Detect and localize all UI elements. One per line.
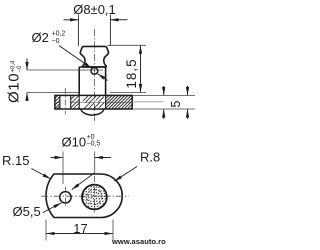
stem left edge	[78, 67, 80, 95]
bottom view horizontal centerline	[41, 195, 129, 197]
stem right edge	[105, 67, 107, 95]
svg-text:Ø5,5: Ø5,5	[13, 204, 41, 219]
dimension 5 arrows left pair	[163, 86, 165, 95]
svg-text:−0: −0	[17, 65, 23, 73]
hatch flange right cell	[106, 96, 132, 109]
dimension line Ø10 vertical	[26, 59, 28, 71]
stem edges through flange	[78, 95, 80, 109]
svg-text:www.asauto.ro: www.asauto.ro	[111, 237, 166, 246]
dimension line Ø8 left arrow	[64, 19, 79, 21]
big circle inner dashed detail	[87, 189, 102, 204]
small circle vertical centerline	[64, 187, 66, 208]
dimension line Ø8 right arrow	[111, 19, 128, 21]
svg-text:R.8: R.8	[140, 150, 160, 165]
extension line flange top (for 5 dim)	[132, 94, 195, 96]
hatch flange cell B (hole to stem)	[71, 96, 79, 109]
svg-text:Ø2: Ø2	[32, 30, 49, 45]
extension line Ø8 right	[109, 15, 111, 47]
svg-text:Ø10: Ø10	[62, 134, 87, 149]
leader Ø2 lower opposing arrow	[98, 74, 108, 81]
centerline stud axis	[93, 29, 95, 121]
leader Ø2 upper arrow	[59, 46, 92, 69]
extension line right (down to big circle)	[94, 152, 96, 173]
hole Ø5,5 (small circle)	[60, 192, 71, 203]
dome Ø10 (big circle, hatched)	[82, 185, 107, 210]
dimension Ø10 +0.4/-0 (left, rotated)	[6, 60, 24, 103]
dimension 5 arrows right pair	[187, 86, 189, 95]
svg-text:18,5: 18,5	[124, 58, 139, 88]
hatch big circle	[78, 176, 111, 212]
flange hole Ø5.5 left wall	[59, 95, 61, 109]
cross hole Ø2	[91, 68, 98, 75]
extension line 17 left	[45, 220, 47, 241]
svg-text:17: 17	[73, 221, 87, 236]
shoulder line top of Ø10 stem section	[79, 66, 105, 68]
bottom view obround outline	[46, 174, 122, 218]
dimension line Ø10 bottom view right	[95, 157, 111, 159]
leader R.15	[32, 169, 51, 179]
cross hole horizontal centerline / Ø10 upper extension	[27, 69, 103, 71]
hatch stem area within flange	[83, 96, 104, 109]
svg-text:−0,5: −0,5	[87, 140, 101, 147]
dimension text 5 (rotated)	[169, 100, 183, 107]
dimension line Ø10 bottom view left	[51, 157, 63, 159]
centerline Ø5.5 hole (front view)	[64, 88, 66, 115]
extension line 18,5 bottom	[110, 92, 146, 94]
faint line extending right of flange	[132, 101, 164, 103]
svg-text:−0: −0	[52, 38, 60, 45]
leader Ø5,5 upper opposing arrow	[72, 173, 95, 190]
dimension line 17	[46, 233, 79, 235]
stud outline (head, groove, stem)	[80, 46, 108, 67]
extension line Ø8 left	[77, 15, 79, 47]
leader Ø5,5 lower arrow	[43, 203, 61, 213]
dimension 18,5 (right, rotated)	[124, 58, 139, 88]
svg-text:Ø10: Ø10	[6, 73, 23, 103]
svg-text:+0,2: +0,2	[52, 31, 66, 38]
flange mid interior line	[55, 101, 60, 103]
svg-text:Ø8±0,1: Ø8±0,1	[73, 2, 116, 17]
extension line flange bottom (for 5 dim)	[132, 108, 195, 110]
svg-text:+0,4: +0,4	[11, 60, 17, 73]
svg-text:R.15: R.15	[2, 153, 29, 168]
hatch flange cell A (left of hole)	[55, 96, 60, 109]
dome below flange	[81, 109, 104, 115]
flange hole Ø5.5 right wall	[70, 95, 72, 109]
big circle vertical centerline	[94, 176, 96, 213]
extension line left (down to small circle)	[62, 152, 64, 185]
extension line Ø10 lower	[27, 92, 79, 94]
svg-text:5: 5	[169, 100, 183, 107]
extension line 18,5 top	[108, 44, 147, 46]
leader R.8	[114, 167, 137, 182]
flange outline	[55, 95, 132, 109]
dimension line 18,5	[140, 46, 142, 70]
extension line 17 right	[112, 220, 114, 241]
